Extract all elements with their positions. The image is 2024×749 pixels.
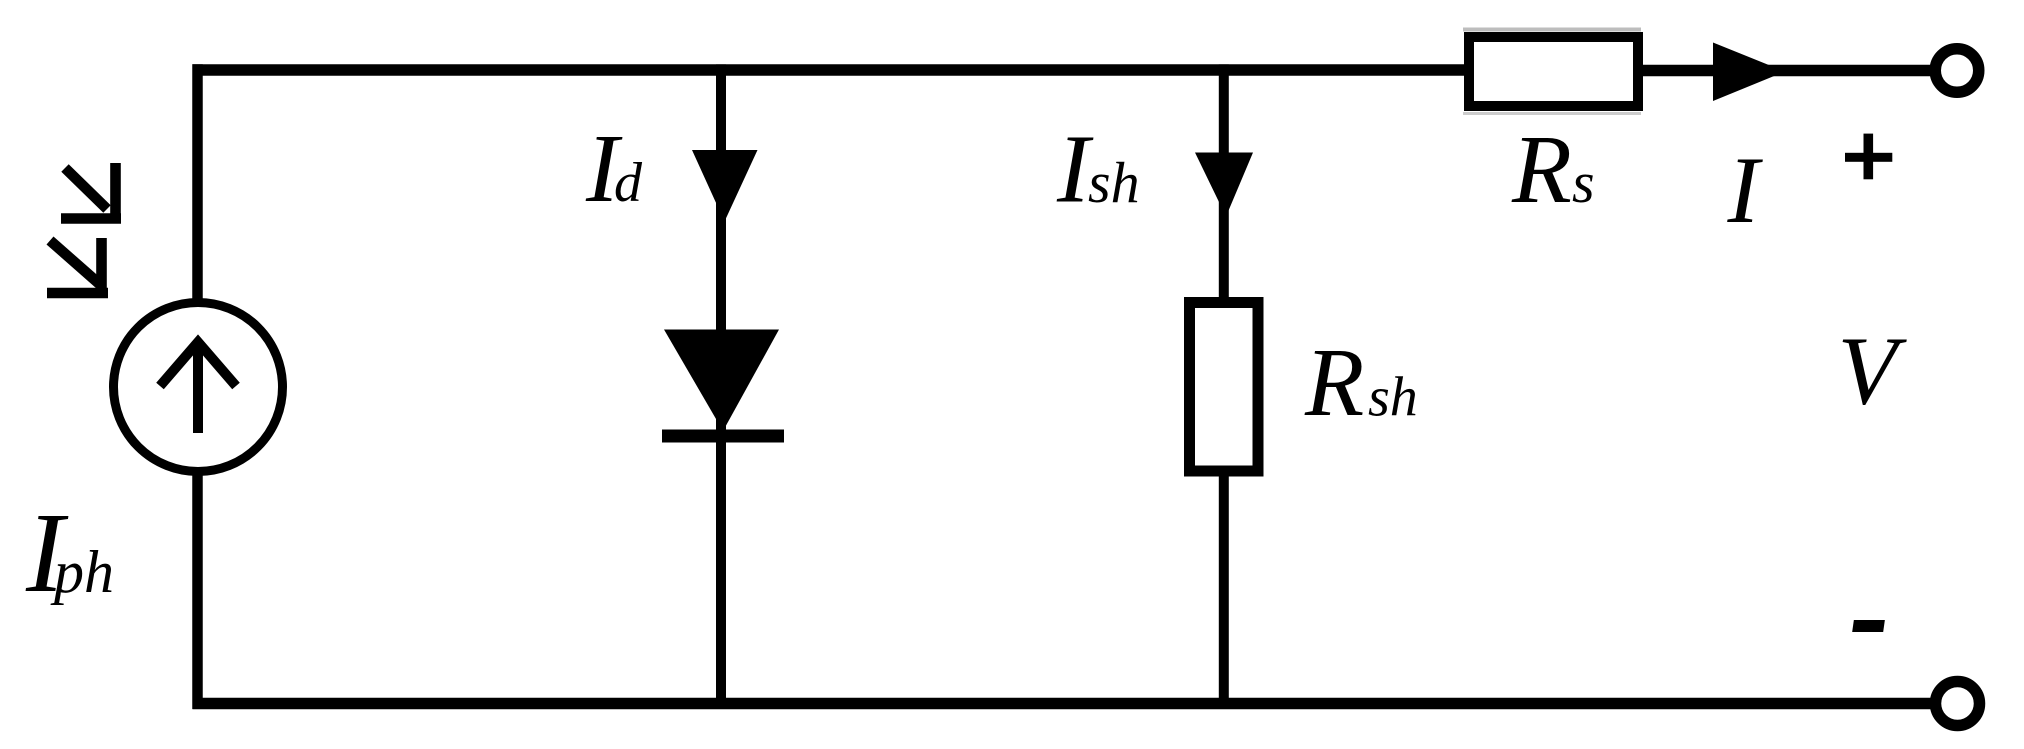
svg-text:V: V (1838, 318, 1908, 426)
svg-text:ph: ph (50, 539, 114, 605)
svg-text:sh: sh (1088, 150, 1140, 215)
svg-text:I: I (1727, 137, 1764, 243)
svg-text:R: R (1511, 116, 1572, 224)
svg-text:s: s (1572, 150, 1595, 215)
svg-text:R: R (1304, 329, 1364, 436)
svg-text:d: d (614, 152, 643, 214)
svg-text:sh: sh (1368, 367, 1418, 429)
